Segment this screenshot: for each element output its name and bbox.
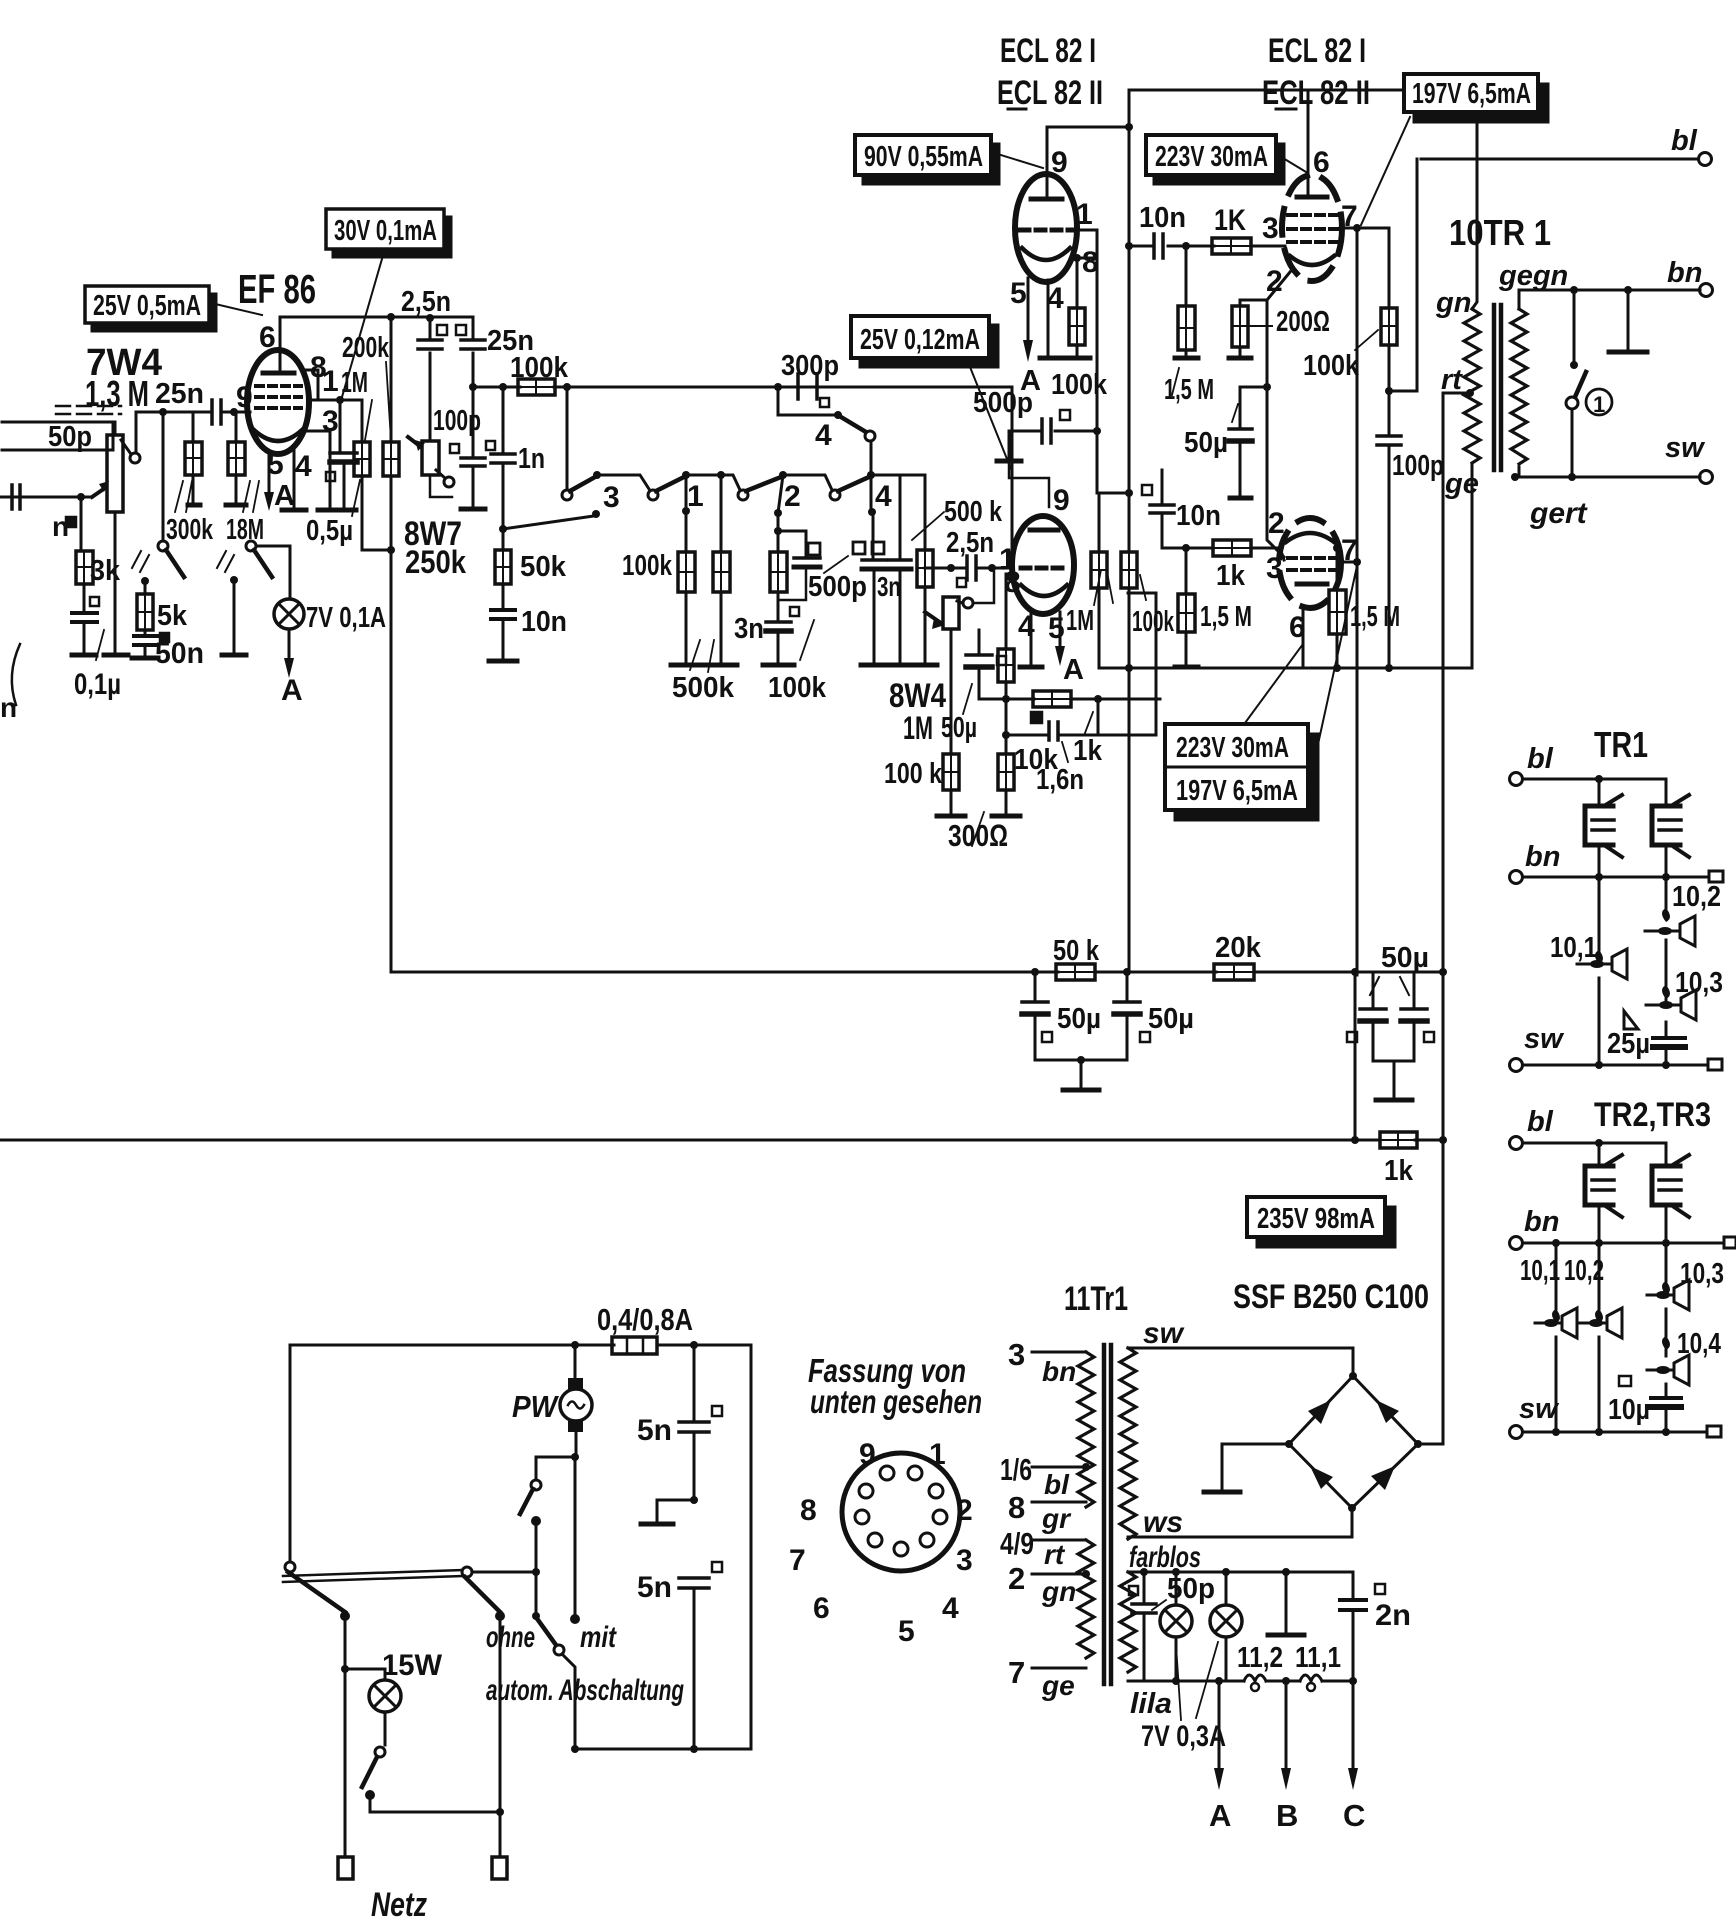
- svg-text:10,4: 10,4: [1677, 1328, 1721, 1360]
- resistor 500k grid stopper: [913, 475, 937, 665]
- wire x1440 vertical: [1442, 1140, 1445, 1444]
- erase head TR2 left: [1585, 1143, 1622, 1243]
- terminal netz left: [338, 1857, 353, 1879]
- svg-text:6: 6: [259, 321, 276, 354]
- svg-text:SSF B250 C100: SSF B250 C100: [1233, 1278, 1429, 1316]
- tube3 triode envelope: [1012, 516, 1074, 614]
- wire switch row y475: [597, 475, 925, 490]
- svg-text:4: 4: [942, 1592, 959, 1625]
- switch S2: [217, 541, 290, 599]
- svg-text:bl: bl: [1044, 1469, 1070, 1500]
- svg-text:90V 0,55mA: 90V 0,55mA: [864, 141, 983, 173]
- wire pin8: [306, 370, 318, 400]
- tube label EF 86: [238, 266, 316, 312]
- label box 223V 30mA: [1146, 135, 1306, 184]
- svg-text:mit: mit: [580, 1621, 618, 1654]
- svg-text:bn: bn: [1042, 1356, 1076, 1387]
- svg-text:20k: 20k: [1215, 932, 1262, 964]
- svg-text:bl: bl: [1671, 125, 1698, 157]
- tube label ECL82 I/II right: [1262, 32, 1370, 112]
- play head 10,2 TR1: [1645, 877, 1695, 985]
- svg-text:25V 0,5mA: 25V 0,5mA: [93, 290, 201, 322]
- terminal sw: [1665, 432, 1713, 484]
- node input junction: [77, 493, 85, 501]
- resistor 5k + capacitor 50n: [132, 581, 204, 670]
- node y387 x473: [469, 383, 477, 391]
- svg-text:7: 7: [789, 1544, 806, 1577]
- node 2,5n top: [426, 314, 434, 322]
- svg-text:1/6: 1/6: [1000, 1452, 1032, 1487]
- play head 10,4 TR2: [1647, 1328, 1721, 1398]
- resistor 18M: [226, 412, 264, 546]
- wire tube2 pin6 riser: [1307, 90, 1310, 176]
- svg-text:Netz: Netz: [371, 1886, 427, 1921]
- wire mains top line: [290, 1341, 751, 1349]
- label box 25V 0,12mA: [851, 316, 1011, 469]
- wire sw line y477: [1511, 473, 1700, 481]
- svg-text:7: 7: [1008, 1655, 1025, 1690]
- wire B+ rail y972: [391, 968, 1447, 976]
- text 11Tr1: [1064, 1280, 1128, 1318]
- svg-text:5: 5: [898, 1615, 915, 1648]
- svg-text:gn: gn: [1041, 1576, 1076, 1607]
- svg-text:sw: sw: [1524, 1023, 1565, 1055]
- socket pin holes: [855, 1466, 947, 1556]
- resistor 200 ohm: [1229, 300, 1330, 358]
- text Netz: [371, 1886, 427, 1921]
- wire pot to grid line: [136, 412, 212, 452]
- erase head TR2 right: [1652, 1143, 1689, 1243]
- capacitor 50u filter C pair: [1347, 942, 1434, 1100]
- capacitor 10u TR2: [1608, 1376, 1681, 1432]
- node y412 x163: [159, 408, 167, 416]
- wire return line y668: [1099, 664, 1472, 672]
- svg-text:500p: 500p: [973, 387, 1033, 419]
- svg-text:5: 5: [1048, 612, 1065, 645]
- resistor 1M grid leak: [354, 400, 370, 550]
- svg-text:1M: 1M: [1066, 605, 1094, 637]
- node wire y699: [979, 695, 1160, 703]
- svg-text:5k: 5k: [157, 600, 188, 632]
- terminal bn: [1667, 257, 1713, 297]
- svg-text:9: 9: [1053, 484, 1070, 517]
- capacitor 25n input coupling: [155, 378, 250, 424]
- svg-text:10,1: 10,1: [1520, 1255, 1560, 1287]
- switch 4 bypass: [778, 387, 875, 475]
- section TR2 TR3 title: [1594, 1096, 1711, 1134]
- svg-text:1k: 1k: [1073, 735, 1103, 767]
- svg-text:ECL 82 I: ECL 82 I: [1000, 32, 1096, 70]
- terminal bn TR2: [1510, 1206, 1736, 1250]
- potentiometer 8W4 1M: [889, 572, 994, 746]
- svg-text:4: 4: [815, 419, 832, 452]
- svg-text:9: 9: [1051, 146, 1068, 179]
- svg-text:farblos: farblos: [1129, 1541, 1201, 1574]
- svg-text:1,3 M: 1,3 M: [85, 373, 149, 414]
- text sw ws: [1143, 1317, 1185, 1539]
- capacitor 5n upper: [637, 1345, 722, 1500]
- svg-text:200k: 200k: [342, 332, 390, 364]
- transformer 10TR1 primary winding: [1464, 89, 1480, 668]
- capacitor 500p tube1: [973, 387, 1097, 461]
- wire netz left pole: [341, 1616, 349, 1857]
- arrow B heater: [1276, 1681, 1298, 1833]
- wire pin4 to ground: [282, 450, 306, 510]
- resistor 100k screen feed: [510, 352, 569, 395]
- svg-text:lila: lila: [1130, 1688, 1172, 1720]
- wire pot bottom to 100k cathode: [950, 629, 953, 754]
- transformer 11Tr1 core: [1104, 1345, 1111, 1684]
- svg-text:223V 30mA: 223V 30mA: [1155, 141, 1268, 173]
- arrow A heater: [1209, 1681, 1231, 1833]
- node contact2 lower: [774, 475, 783, 552]
- wire long vertical x1129: [1125, 90, 1133, 972]
- label double box 223V 30mA / 197V 6,5mA: [1165, 566, 1357, 820]
- svg-text:6: 6: [813, 1592, 830, 1625]
- label box 25V 0,5mA: [85, 286, 262, 331]
- label box 30V 0,1mA: [326, 209, 451, 397]
- transformer 11Tr1 secondary HV: [1120, 1348, 1136, 1539]
- svg-text:bn: bn: [1524, 1206, 1559, 1238]
- svg-text:11,1: 11,1: [1295, 1642, 1341, 1674]
- svg-text:3: 3: [956, 1544, 973, 1577]
- svg-text:50µ: 50µ: [1381, 942, 1429, 974]
- text 7V 0,3A: [1141, 1642, 1226, 1753]
- wire x1156 plate feedback: [1098, 593, 1156, 735]
- capacitor 10n coupling: [1125, 202, 1214, 258]
- tube1 internals: [1020, 174, 1072, 260]
- wire grid row tube4 y548: [1162, 513, 1284, 560]
- svg-text:10µ: 10µ: [1608, 1394, 1650, 1426]
- ground on bn line: [1609, 290, 1647, 352]
- svg-text:8: 8: [800, 1494, 817, 1527]
- triangle mark TR1: [1624, 1011, 1638, 1029]
- svg-text:n: n: [0, 692, 17, 723]
- capacitor 50u filter B: [1081, 972, 1194, 1060]
- capacitor 500p parallel: [774, 513, 867, 603]
- transformer 10TR1 secondary winding: [1511, 290, 1527, 477]
- resistor below contact2: [770, 552, 787, 622]
- svg-text:50p: 50p: [1167, 1573, 1215, 1605]
- potentiometer 8W7 250k: [404, 437, 466, 580]
- tube2 internals: [1288, 176, 1338, 265]
- svg-text:9: 9: [236, 381, 253, 414]
- capacitor 100p: [450, 387, 485, 509]
- svg-text:TR2,TR3: TR2,TR3: [1594, 1096, 1711, 1134]
- resistor 100k tube1 cathode: [1051, 258, 1108, 401]
- resistor 300k: [166, 412, 214, 546]
- wire right vertical power: [750, 1345, 753, 1749]
- wire tube3 pin5 arrow: [1055, 612, 1084, 686]
- resistor 1,5M tube4: [1175, 548, 1252, 667]
- svg-text:1M: 1M: [903, 710, 933, 746]
- tube1 ECL82 triode envelope: [1015, 174, 1077, 282]
- capacitor 100p tube2: [1377, 391, 1444, 668]
- wire to bl riser: [1389, 159, 1417, 391]
- node contact1 lower: [682, 475, 690, 552]
- svg-text:100k: 100k: [1132, 606, 1175, 638]
- svg-text:50µ: 50µ: [1184, 427, 1228, 459]
- wire rt tap: [1443, 389, 1474, 1141]
- svg-text:4/9: 4/9: [1000, 1526, 1034, 1561]
- play head 10,2 TR2: [1580, 1243, 1622, 1432]
- tube2 pin labels: [1266, 146, 1358, 298]
- svg-text:197V 6,5mA: 197V 6,5mA: [1412, 78, 1531, 110]
- terminal sw TR2: [1510, 1393, 1722, 1439]
- switch left mains link: [462, 1567, 540, 1577]
- tube4 internals: [1286, 533, 1336, 584]
- svg-text:3n: 3n: [734, 613, 764, 645]
- resistor 1k vertical: [998, 574, 1014, 699]
- capacitor 25u TR1: [1607, 1028, 1685, 1065]
- svg-text:ge: ge: [1444, 468, 1479, 500]
- text Fassung von unten gesehen: [808, 1352, 982, 1420]
- svg-text:11,2: 11,2: [1237, 1642, 1283, 1674]
- svg-text:1M: 1M: [341, 367, 368, 399]
- lamp 15W: [345, 1649, 443, 1745]
- svg-text:300Ω: 300Ω: [948, 818, 1008, 853]
- resistor 100k below contact1: [622, 550, 702, 665]
- tube EF86 internals: [254, 350, 302, 441]
- wire pin9: [234, 411, 249, 414]
- text 500k 2,5n pointers: [912, 496, 1003, 559]
- svg-text:7V 0,1A: 7V 0,1A: [306, 602, 386, 634]
- svg-text:bl: bl: [1527, 1106, 1554, 1138]
- svg-text:18M: 18M: [226, 514, 264, 546]
- svg-text:1: 1: [1076, 198, 1093, 231]
- svg-text:1,5 M: 1,5 M: [1164, 374, 1214, 406]
- text 1,3M: [85, 373, 149, 414]
- svg-text:5n: 5n: [637, 1414, 672, 1447]
- capacitor 5n lower: [637, 1562, 722, 1749]
- svg-text:1,5 M: 1,5 M: [1200, 601, 1252, 633]
- wire pin1 to node: [308, 396, 362, 404]
- svg-text:197V 6,5mA: 197V 6,5mA: [1176, 775, 1298, 807]
- svg-text:1k: 1k: [1384, 1155, 1414, 1187]
- svg-text:ws: ws: [1143, 1506, 1183, 1539]
- svg-text:4: 4: [295, 450, 312, 483]
- svg-text:2: 2: [1008, 1561, 1025, 1596]
- svg-text:25n: 25n: [155, 378, 204, 410]
- switch contact 3: [562, 383, 620, 514]
- wire lila rail: [1128, 1677, 1357, 1685]
- input shield box 50p: [2, 406, 121, 453]
- svg-text:500k: 500k: [672, 672, 735, 704]
- svg-text:sw: sw: [1519, 1393, 1560, 1425]
- svg-text:250k: 250k: [405, 544, 466, 580]
- wire main y387: [473, 386, 1012, 389]
- arrow A below lamp: [281, 629, 303, 707]
- wire x1337 to grid row: [1285, 547, 1357, 549]
- text fuse 0,4/0,8A: [597, 1302, 693, 1337]
- svg-text:8: 8: [1004, 566, 1021, 599]
- resistor 500k beside: [672, 471, 737, 704]
- svg-text:ohne: ohne: [486, 1621, 535, 1654]
- wire pin3 to ground: [307, 431, 342, 510]
- wire pot bottom to ground: [104, 560, 128, 655]
- switch mit chain: [570, 1453, 580, 1624]
- svg-text:PW: PW: [512, 1389, 559, 1424]
- transformer 10TR1 core: [1494, 305, 1501, 470]
- section TR1 title: [1594, 724, 1648, 765]
- label box 197V 6,5mA overlay: [1404, 74, 1548, 122]
- capacitor 3n pair B: [872, 475, 912, 665]
- wire input line y497: [0, 496, 92, 499]
- bridge diodes: [1308, 1400, 1399, 1490]
- svg-text:500p: 500p: [808, 571, 867, 603]
- capacitor 300p bypass: [774, 350, 839, 407]
- node 200k top / bottom: [362, 313, 395, 554]
- svg-text:gr: gr: [1041, 1503, 1072, 1534]
- lamp heater 1: [1160, 1572, 1192, 1681]
- text n marker left: [52, 511, 76, 542]
- svg-text:50µ: 50µ: [941, 712, 977, 744]
- svg-text:10,3: 10,3: [1680, 1258, 1724, 1290]
- svg-text:4: 4: [1047, 282, 1064, 315]
- svg-text:100p: 100p: [1392, 450, 1444, 482]
- socket circle: [842, 1453, 960, 1571]
- motor PW: [512, 1345, 592, 1457]
- svg-text:50 k: 50 k: [1053, 935, 1100, 967]
- wire bridge plus up: [1418, 1443, 1443, 1446]
- svg-text:unten gesehen: unten gesehen: [810, 1383, 982, 1420]
- erase head TR1 right: [1652, 779, 1689, 877]
- svg-text:11Tr1: 11Tr1: [1064, 1280, 1128, 1318]
- terminal bl: [1421, 125, 1712, 166]
- svg-text:2,5n: 2,5n: [946, 527, 994, 559]
- capacitor 25n screen: [461, 317, 534, 387]
- partial curve left edge bottom: [0, 644, 20, 723]
- label box 90V 0,55mA: [855, 135, 1043, 184]
- terminal bl TR1: [1510, 743, 1667, 786]
- terminal bn TR1: [1510, 841, 1724, 884]
- wire pin7 long vertical x1357: [1356, 228, 1359, 975]
- capacitor 10n to ground: [489, 606, 567, 661]
- svg-text:8: 8: [1008, 1490, 1025, 1525]
- mains double pole switch: [283, 1570, 505, 1621]
- switch ohne chain upper: [520, 1457, 575, 1572]
- text autom abschaltung: [486, 1674, 684, 1707]
- wire ws to bridge: [1128, 1508, 1352, 1537]
- node S2 throw: [222, 576, 246, 655]
- svg-text:B: B: [1276, 1798, 1298, 1833]
- svg-text:200Ω: 200Ω: [1276, 306, 1330, 338]
- svg-text:10n: 10n: [1139, 202, 1186, 234]
- svg-text:9: 9: [859, 1438, 876, 1471]
- svg-text:10,3: 10,3: [1675, 967, 1723, 999]
- svg-text:bn: bn: [1525, 841, 1560, 873]
- capacitor 2n: [1340, 1572, 1411, 1681]
- wire pin4 tube1 ground: [1040, 280, 1062, 358]
- wire sw to bridge: [1128, 1348, 1353, 1376]
- wire pin5 arrow A: [264, 452, 295, 512]
- svg-text:5: 5: [1010, 277, 1027, 310]
- capacitor 2,5n trimmer: [418, 318, 466, 441]
- svg-text:autom. Abschaltung: autom. Abschaltung: [486, 1674, 684, 1707]
- svg-text:bn: bn: [1667, 257, 1702, 289]
- text 100p: [433, 405, 481, 437]
- svg-text:100k: 100k: [510, 352, 569, 384]
- switch 1 output: [1566, 290, 1612, 477]
- svg-text:2: 2: [956, 1494, 973, 1527]
- svg-text:100k: 100k: [768, 672, 827, 704]
- lamp 7V 0,1A: [274, 599, 386, 634]
- bridge rectifier SSF B250 C100: [1285, 1372, 1422, 1512]
- svg-text:6: 6: [1313, 146, 1330, 179]
- svg-text:300p: 300p: [781, 350, 839, 382]
- svg-text:100k: 100k: [1051, 369, 1108, 401]
- resistor 50k rail: [1053, 935, 1100, 980]
- svg-text:1n: 1n: [518, 443, 545, 475]
- arrow C heater: [1343, 1681, 1365, 1833]
- wire long vertical x392 to rail: [390, 550, 393, 972]
- svg-text:5n: 5n: [637, 1571, 672, 1604]
- svg-text:223V 30mA: 223V 30mA: [1176, 732, 1289, 764]
- label box 235V 98mA: [1247, 1197, 1395, 1247]
- svg-text:ge: ge: [1041, 1670, 1075, 1701]
- svg-text:C: C: [1343, 1798, 1365, 1833]
- pin 6 label: [259, 321, 276, 354]
- capacitor 50u cathode: [941, 630, 1006, 744]
- tube1 pin labels: [1010, 146, 1099, 315]
- svg-text:7V 0,3A: 7V 0,3A: [1141, 1720, 1226, 1753]
- svg-text:A: A: [274, 480, 295, 512]
- resistor 3k with 0,1u cap chain: [72, 497, 121, 701]
- play head 10,3 TR1: [1646, 967, 1723, 1038]
- terminal bl TR2: [1510, 1106, 1667, 1150]
- wire tube1 plate pin1: [1075, 229, 1097, 232]
- svg-text:rt: rt: [1441, 364, 1463, 396]
- ground filter caps: [1063, 1056, 1099, 1090]
- capacitor 2,5n coupling: [951, 556, 992, 587]
- wire tube2 pin7 node: [1340, 224, 1389, 232]
- svg-text:gegn: gegn: [1498, 260, 1568, 292]
- wire x1097 plate chain: [1093, 230, 1129, 493]
- svg-text:10TR 1: 10TR 1: [1449, 212, 1551, 253]
- svg-text:3: 3: [1262, 212, 1279, 245]
- node 5k top: [141, 577, 149, 585]
- resistor 1,5M grid tube2: [1164, 246, 1214, 406]
- svg-text:3: 3: [603, 481, 620, 514]
- tube4 ECL82 pentode envelope: [1279, 518, 1341, 608]
- svg-text:1: 1: [1593, 392, 1605, 417]
- ground heater mid: [1268, 1572, 1304, 1635]
- svg-text:ECL 82 II: ECL 82 II: [1262, 74, 1370, 112]
- capacitor 1,6n branch: [1002, 699, 1103, 796]
- svg-text:sw: sw: [1665, 432, 1706, 464]
- transformer 10TR1 title: [1449, 212, 1551, 253]
- text lila: [1130, 1688, 1172, 1720]
- text SSF B250 C100: [1233, 1278, 1429, 1316]
- svg-text:1: 1: [929, 1438, 946, 1471]
- text ohne mit: [486, 1621, 618, 1654]
- resistor 300 ohm: [948, 735, 1020, 853]
- svg-text:100k: 100k: [622, 550, 673, 582]
- wire x1012 down to grid: [1004, 387, 1012, 568]
- resistor 200k: [383, 317, 399, 551]
- svg-text:2n: 2n: [1375, 1599, 1411, 1632]
- svg-text:gert: gert: [1529, 497, 1589, 530]
- svg-text:ECL 82 II: ECL 82 II: [997, 74, 1103, 112]
- resistor 50k: [495, 529, 567, 610]
- resistor 1k coupling: [1212, 204, 1285, 254]
- wire tube4 pin7: [1340, 558, 1361, 566]
- wire pin6 top line to 2,5n: [280, 317, 473, 350]
- switch S1 left: [132, 412, 184, 577]
- svg-text:50µ: 50µ: [1057, 1003, 1101, 1035]
- svg-text:10,2: 10,2: [1672, 881, 1721, 913]
- wire tube3 pin4 ground: [1020, 612, 1042, 667]
